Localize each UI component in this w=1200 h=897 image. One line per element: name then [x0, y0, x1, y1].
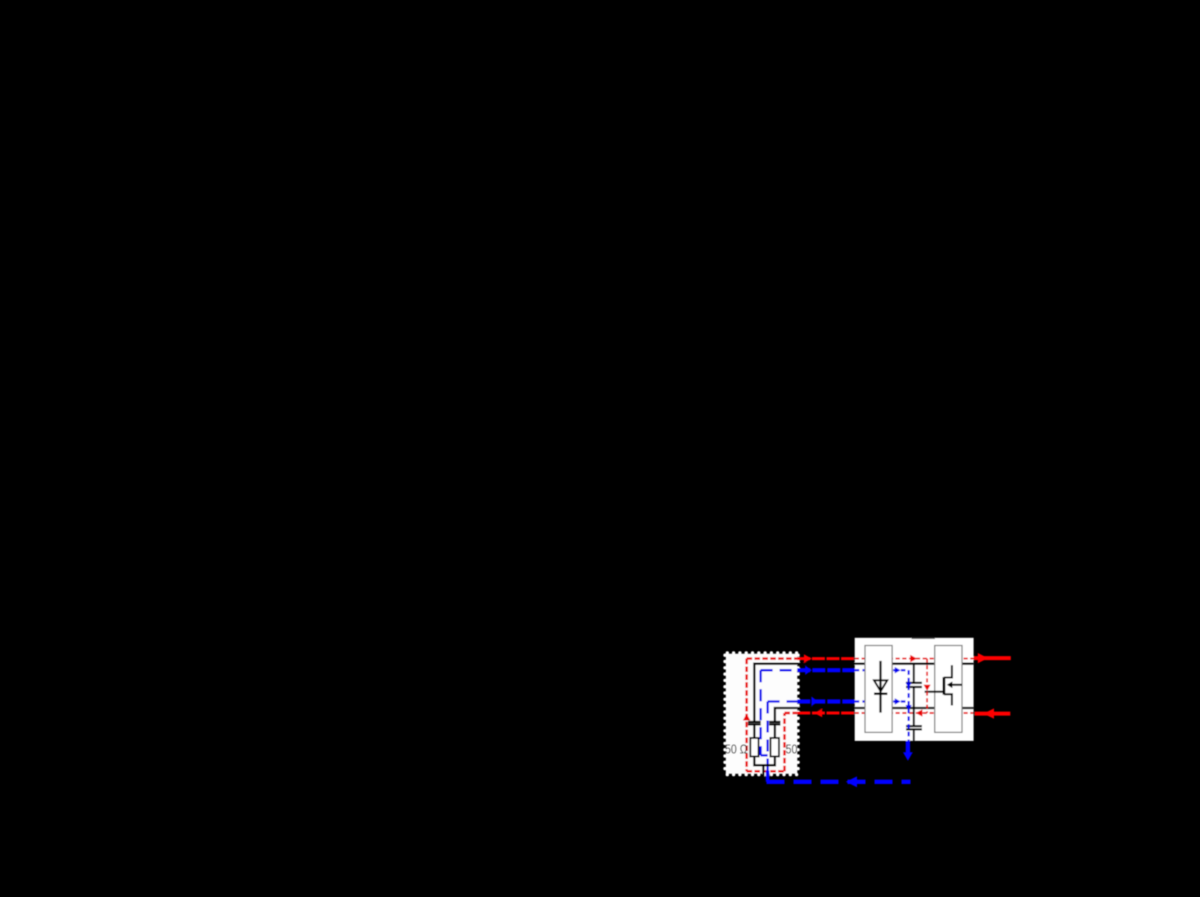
- inner box: diode module: [865, 646, 892, 733]
- thick blue ground arrow below converter box: [906, 741, 910, 753]
- capacitor C1 plates (left branch, stamp box): [748, 722, 761, 724]
- X capacitor (between lines): [906, 664, 922, 708]
- thick blue stub joining stamp ground to return: [766, 771, 770, 782]
- small red arrowhead down on DM vertical: [924, 685, 931, 691]
- wire: left branch cap to resistor: [753, 724, 755, 738]
- wire: top black line (phase): [754, 664, 973, 722]
- small blue arrowhead down below lower line: [906, 705, 912, 710]
- thick red exit arrow top right: [974, 656, 1011, 660]
- wire: bottom black line (neutral): [775, 708, 974, 722]
- thick red arrowhead right (top, between boxes): [804, 654, 812, 663]
- wire: right branch cap to resistor: [774, 724, 776, 738]
- wire: resistor bottoms join: [754, 756, 775, 765]
- small blue arrowhead right on top line: [895, 667, 901, 673]
- red up arrowhead on stamp loop left vertical: [743, 714, 750, 721]
- red loop return exit (stamp): [785, 712, 798, 714]
- red DM vertical inside converter box: [926, 659, 928, 713]
- small blue arrowhead down at X cap: [906, 683, 912, 688]
- blue vertical A (left branch): [759, 670, 761, 755]
- blue U bottom: [761, 754, 768, 756]
- red thin top line inside converter box: [855, 658, 974, 660]
- small blue arrowhead right on lower line: [895, 698, 901, 704]
- LISN stamp box (left white box with perforated edges): [723, 651, 800, 776]
- thick blue CM segment between boxes (lower): [797, 699, 854, 703]
- small red arrowhead left on return line (converter): [916, 709, 923, 716]
- diode D1: [874, 661, 887, 713]
- red loop top (stamp): [747, 657, 798, 659]
- red thin return line inside converter box: [855, 712, 974, 714]
- thick red DM return segment between boxes: [797, 712, 854, 715]
- red loop bottom: [747, 770, 785, 772]
- thick red entry arrow bottom right: [975, 712, 1011, 716]
- inner box: MOSFET module: [935, 646, 962, 733]
- red DM path: thin dashes inside stamp box: [747, 659, 798, 772]
- blue vertical B (right branch down to ground): [766, 702, 768, 771]
- wire: center ground stub below stamp box: [762, 765, 764, 787]
- svg-text:50 Ω: 50 Ω: [725, 742, 748, 757]
- blue CM path thin dashes inside stamp box: [761, 670, 798, 770]
- blue thin top line inside converter box: [855, 669, 909, 671]
- blue top horizontal (stamp): [761, 669, 798, 671]
- thick red DM segment between boxes (top): [797, 657, 854, 660]
- thick blue CM segment between boxes (top): [797, 668, 854, 672]
- thick blue arrowhead right (lower, between boxes): [811, 697, 818, 707]
- thick red arrowhead left (return, between boxes): [814, 709, 822, 718]
- red loop left vertical: [745, 659, 747, 772]
- small red arrowhead right on top line (converter): [910, 655, 917, 662]
- thick blue ground return line (bottom): [767, 780, 911, 784]
- resistor R1 50ohm: [750, 738, 758, 757]
- label 50 ohm right (clipped by box edge): [786, 742, 809, 757]
- resistor R2 50ohm: [771, 738, 779, 757]
- red loop right vertical: [783, 713, 785, 771]
- blue thin lower line inside converter box: [855, 700, 909, 702]
- thick blue arrowhead right (top, between boxes): [805, 666, 812, 675]
- MOSFET Q1: [925, 665, 962, 705]
- blue lower horizontal (stamp): [768, 700, 798, 702]
- blue CM vertical inside converter box: [907, 670, 909, 741]
- thick blue arrowhead left on ground return: [846, 776, 857, 787]
- Y capacitor (to ground): [906, 708, 922, 741]
- capacitor C2 plates (right branch, stamp box): [769, 722, 780, 724]
- converter box (right white box): [855, 638, 974, 741]
